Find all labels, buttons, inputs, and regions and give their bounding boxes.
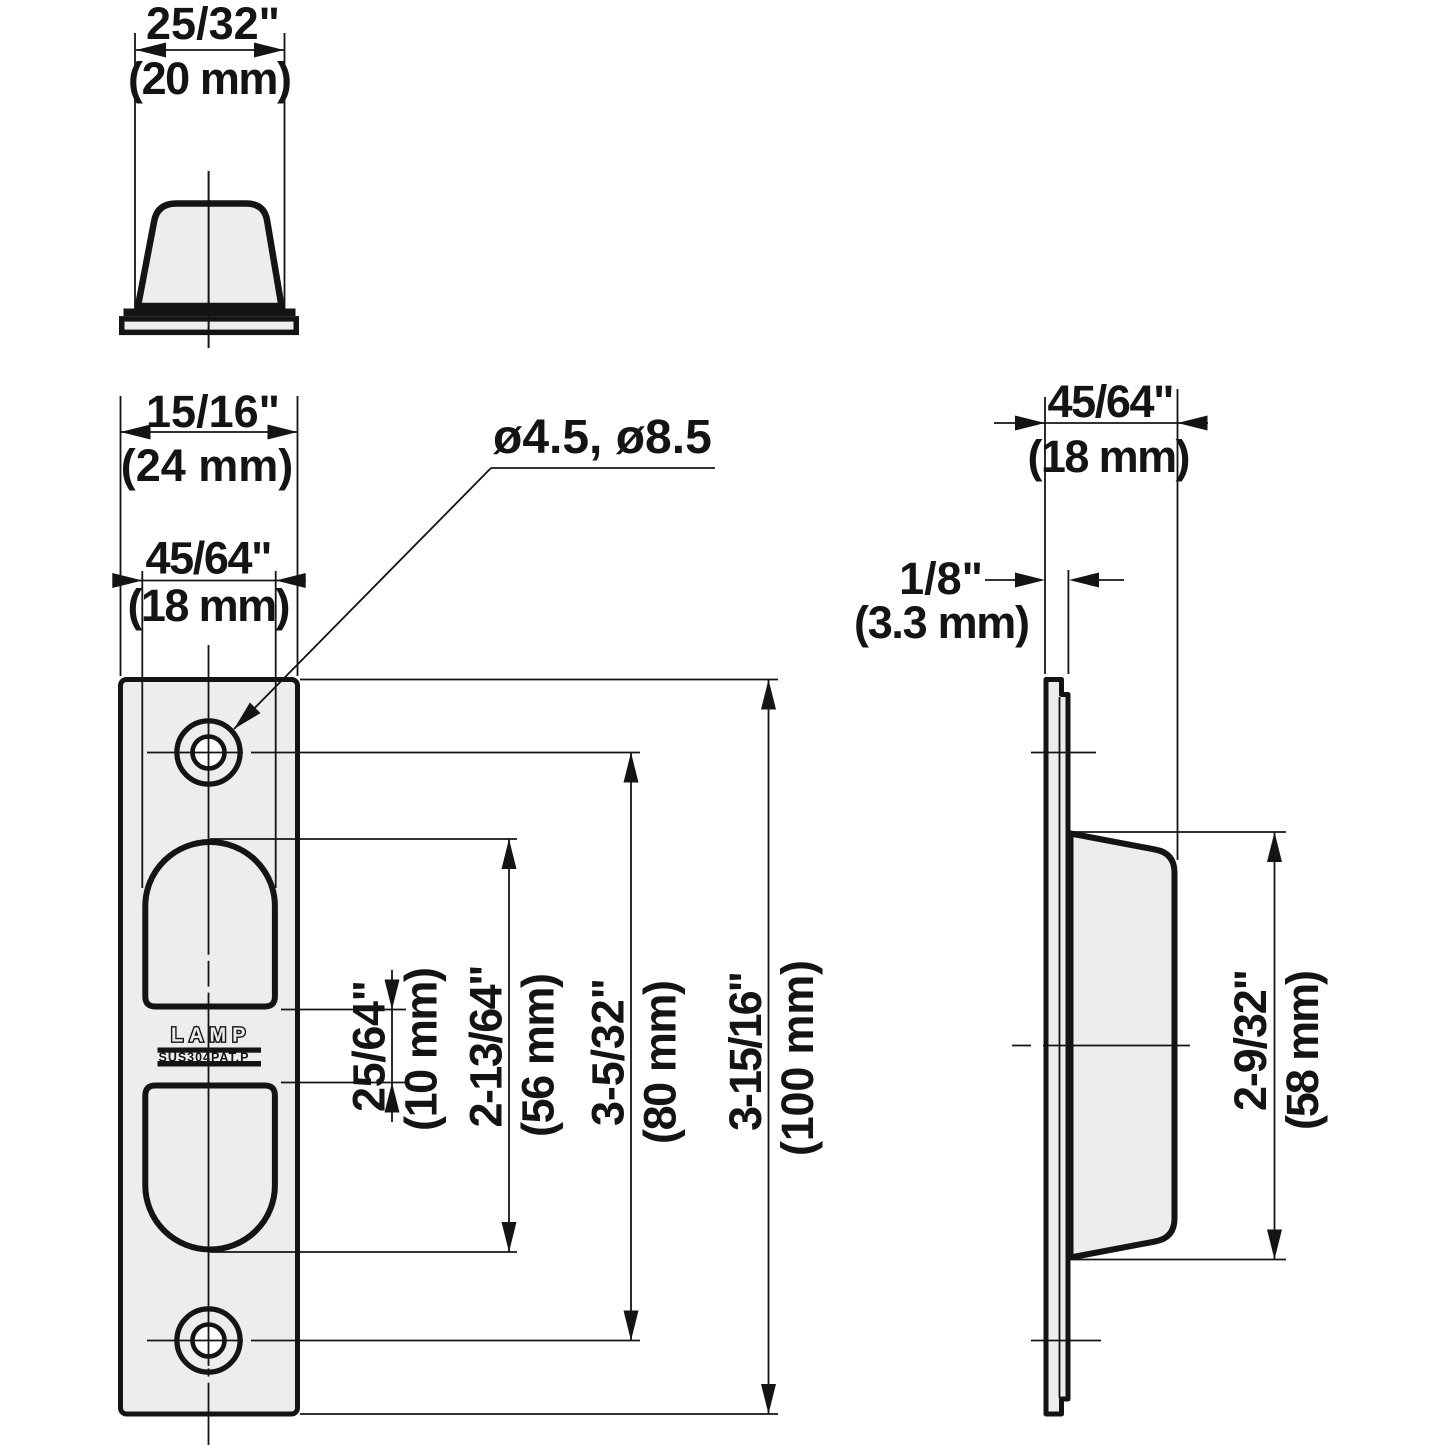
extension line left (24mm) [120,396,122,676]
svg-text:(10 mm): (10 mm) [396,967,447,1131]
strike plate (front view) [121,680,298,1415]
SUS304 stamp bottom bar [158,1061,262,1067]
dimension line 45/64" side [994,422,1208,424]
extension line 1/8 [1067,570,1069,674]
svg-text:(24 mm): (24 mm) [121,440,294,491]
dome (top view of strike box) [138,204,282,307]
svg-text:2-13/64": 2-13/64" [461,965,512,1128]
svg-text:(18 mm): (18 mm) [128,580,291,631]
extension line side right [1177,389,1179,860]
svg-text:3-5/32": 3-5/32" [583,978,634,1126]
side plate outline [1046,680,1068,1415]
extension line side left [1044,397,1046,674]
top screw hole outer ø8.5 [177,721,240,784]
dimension line 2-9/32" (58 mm) [1274,832,1276,1260]
svg-text:(3.3 mm): (3.3 mm) [854,597,1030,648]
bottom screw hole inner ø4.5 [193,1325,225,1357]
lower latch cutout [145,1086,275,1250]
reference line dimple bottom [1072,1259,1286,1261]
reference line lower cutout bottom [210,1251,517,1253]
top screw hole crosshair [147,752,243,754]
center dash line side [1012,1045,1031,1047]
reference line lower cutout top [281,1082,406,1084]
reference line upper cutout bottom [281,1009,406,1011]
dimension line 45/64" front [113,580,306,582]
extension line left (18mm) into plate [141,571,143,888]
dimension line 2-13/64" (56 mm) [508,839,510,1252]
top screw hole inner ø4.5 [193,737,225,769]
crosshair tick bottom hole side [1031,1340,1101,1342]
upper latch cutout [145,842,275,1007]
center line top view [208,171,210,348]
dimension line 25/32" [136,49,284,51]
svg-text:(56 mm): (56 mm) [513,973,564,1137]
svg-text:(20 mm): (20 mm) [128,53,292,104]
svg-text:(100 mm): (100 mm) [772,960,823,1156]
svg-text:2-9/32": 2-9/32" [1225,969,1276,1111]
dimension line 1/8" right part [1099,579,1124,581]
svg-text:(80 mm): (80 mm) [635,980,686,1144]
reference line dimple top [1070,831,1286,833]
SUS304 stamp top bar [158,1048,262,1053]
bottom screw hole outer ø8.5 [177,1309,240,1372]
svg-text:(18 mm): (18 mm) [1028,431,1191,482]
side plate inner line [1059,697,1061,1398]
callout arrowhead [234,703,261,730]
svg-text:45/64": 45/64" [146,533,273,584]
extension line left (20mm) [134,33,136,310]
extension line right (18mm) into plate [275,571,277,888]
dimension line 15/16" [121,431,298,433]
svg-text:45/64": 45/64" [1048,376,1175,427]
svg-text:ø4.5, ø8.5: ø4.5, ø8.5 [493,411,712,464]
dimension line 3-15/16" (100 mm) [768,680,770,1415]
svg-text:25/64": 25/64" [344,980,395,1112]
dimension line 1/8" left part [985,579,1015,581]
reference line plate bottom [300,1413,778,1415]
callout underline [491,467,715,469]
base plate (top view) [122,319,297,333]
dimension line 3-5/32" (80 mm) [630,753,632,1341]
reference line plate top [300,679,778,681]
callout leader line [234,468,491,729]
vertical center line (front view) [208,645,210,955]
svg-text:(58 mm): (58 mm) [1277,970,1328,1130]
dimple box (side view) [1071,834,1175,1258]
bottom screw hole crosshair [147,1340,243,1342]
extension line right (20mm) [284,33,286,310]
svg-text:15/16": 15/16" [146,386,280,437]
reference line upper cutout top [210,838,517,840]
extension line right (24mm) [297,396,299,676]
svg-text:3-15/16": 3-15/16" [720,971,771,1131]
dome base bar [124,309,296,317]
dimension line 25/64" (10 mm) [391,970,393,1122]
crosshair tick top hole side [1031,752,1096,754]
svg-text:25/32": 25/32" [146,0,280,49]
